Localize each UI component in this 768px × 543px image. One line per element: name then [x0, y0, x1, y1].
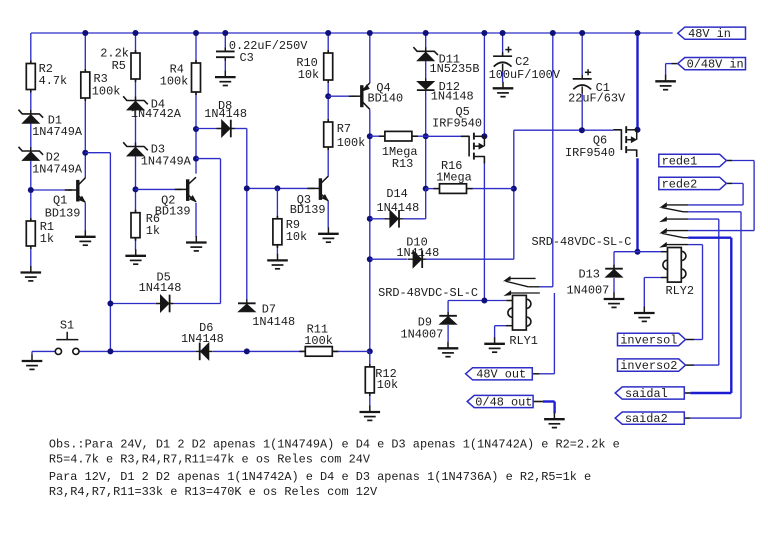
resistor R12: [365, 364, 374, 396]
wire Q2 emitter to ground: [195, 203, 197, 237]
zener diode D3: [123, 142, 148, 156]
wire R10 branch: [327, 33, 329, 177]
label D3: [141, 143, 192, 169]
diode D8: [217, 120, 235, 138]
svg-text:100uF/100V: 100uF/100V: [489, 68, 561, 82]
wire 0/48V in link: [666, 64, 678, 76]
svg-text:inverso2: inverso2: [620, 359, 677, 373]
ground RLY2 coil: [634, 307, 655, 322]
svg-text:saidal: saidal: [625, 387, 668, 401]
svg-text:100k: 100k: [92, 84, 121, 98]
wire C3 branch: [224, 33, 226, 71]
contact RLY2 arm3: [660, 229, 688, 238]
wire C1 branch: [581, 33, 583, 130]
label RLY2: [666, 284, 695, 298]
node R3-bus junction: [82, 30, 88, 36]
relay coil RLY1: [508, 295, 531, 330]
label R1: [40, 220, 54, 246]
resistor R5: [131, 50, 140, 82]
svg-text:BD139: BD139: [290, 203, 326, 217]
label D12: [431, 80, 474, 103]
node R16 right junction: [511, 186, 517, 192]
resistor R9: [273, 216, 282, 248]
net tag rede2: [659, 177, 727, 191]
wire 0/48 out link thick: [533, 402, 555, 414]
label R4: [160, 62, 189, 88]
svg-text:C3: C3: [240, 51, 254, 65]
resistor R1: [26, 218, 35, 249]
mosfet Q6: [613, 126, 637, 157]
label D6: [181, 321, 224, 346]
label D1: [32, 114, 83, 140]
resistor R2: [26, 61, 35, 93]
svg-text:1N4749A: 1N4749A: [32, 125, 83, 139]
wire C2 branch: [502, 33, 504, 82]
label D4: [131, 97, 182, 121]
node Q5-bus junction: [481, 30, 487, 36]
svg-text:RLY1: RLY1: [509, 334, 538, 348]
node Q5 source junction: [481, 133, 487, 139]
mosfet Q5: [461, 133, 485, 164]
wire Q6 source branch thick: [636, 33, 638, 130]
capacitor C1: [573, 69, 592, 94]
label R6: [146, 212, 160, 238]
wire RLY1 row: [448, 300, 512, 302]
transistor Q1: [65, 178, 86, 203]
node Q6 source junction: [635, 127, 641, 133]
label Q3: [290, 193, 326, 217]
wire Q6 drain thick: [636, 158, 638, 251]
wire R3 to S1 column: [85, 153, 110, 352]
label R9: [286, 218, 307, 244]
svg-text:Q1: Q1: [53, 193, 67, 207]
note line 4: [49, 485, 378, 499]
diode D10: [408, 250, 426, 268]
svg-text:rede1: rede1: [662, 154, 698, 168]
wire R16 row: [426, 188, 514, 190]
svg-text:1N4007: 1N4007: [567, 283, 610, 297]
wire R12 branch: [369, 351, 371, 405]
resistor R13: [379, 131, 418, 141]
svg-text:IRF9540: IRF9540: [565, 146, 615, 160]
label D5: [139, 271, 182, 295]
svg-text:10k: 10k: [286, 230, 307, 244]
svg-text:rede2: rede2: [662, 177, 698, 191]
wire arm3 blade to saida1 thick: [684, 238, 731, 393]
diode D6: [196, 343, 213, 361]
node D8 junction: [193, 126, 199, 132]
svg-text:1N4148: 1N4148: [204, 107, 247, 121]
label D9: [401, 316, 444, 342]
label Q4: [368, 81, 404, 105]
node R3 bottom junction: [82, 150, 88, 156]
svg-text:R13: R13: [392, 157, 413, 171]
node R4-bus junction: [193, 30, 199, 36]
wire Q4 branch: [369, 33, 371, 351]
node RLY1 row junction: [481, 298, 487, 304]
ground RLY1 coil: [484, 337, 505, 352]
node D5 junction: [107, 301, 113, 307]
svg-text:R3,R4,R7,R11=33k e R13=470K e: R3,R4,R7,R11=33k e R13=470K e os Reles c…: [49, 485, 378, 499]
ground Q3: [318, 227, 339, 242]
svg-text:22uF/63V: 22uF/63V: [568, 92, 626, 106]
wire RLY2 coil stub: [644, 278, 667, 308]
svg-text:IRF9540: IRF9540: [432, 117, 482, 131]
zener diode D1: [19, 110, 44, 124]
resistor R4: [192, 60, 201, 95]
zener diode D11: [413, 47, 438, 61]
zener diode D2: [19, 147, 44, 161]
svg-text:100k: 100k: [337, 136, 366, 150]
svg-text:100k: 100k: [160, 75, 189, 89]
diode D12: [417, 78, 435, 90]
svg-text:R5: R5: [112, 59, 126, 73]
label D13: [567, 268, 610, 298]
label RLY1: [509, 334, 538, 348]
svg-text:BD139: BD139: [155, 205, 191, 219]
contact RLY1 armB: [505, 291, 540, 296]
ground Q2: [186, 236, 207, 251]
wire top 48V bus: [31, 32, 673, 34]
net tag 0/48V in: [678, 58, 746, 72]
label D7: [252, 303, 295, 330]
net tag 48V out: [466, 368, 533, 382]
ground R1: [21, 266, 42, 281]
node R10-bus junction: [325, 30, 331, 36]
svg-text:0/48 out: 0/48 out: [475, 395, 532, 409]
label D11: [430, 52, 480, 76]
node R7 top junction: [325, 93, 331, 99]
contact RLY2 arm2: [660, 217, 688, 222]
contact RLY2 arm1: [660, 203, 688, 212]
svg-text:1N4742A: 1N4742A: [131, 107, 182, 121]
wire 48V out riser: [532, 293, 554, 374]
node R13 left junction: [367, 133, 373, 139]
svg-text:1N4007: 1N4007: [401, 327, 444, 341]
svg-text:BD139: BD139: [45, 207, 81, 221]
svg-text:1N5235B: 1N5235B: [430, 62, 480, 76]
label R13: [382, 145, 418, 171]
wire Q3 emitter to ground: [327, 201, 329, 228]
wire arm4 to inverso1: [686, 245, 703, 340]
label R12: [375, 367, 398, 392]
svg-text:1N4148: 1N4148: [431, 89, 474, 103]
ground C3: [215, 71, 236, 86]
svg-text:1N4148: 1N4148: [396, 246, 439, 260]
label D8: [204, 99, 247, 121]
ground R6: [125, 249, 146, 264]
contact RLY1 armA: [504, 276, 540, 287]
svg-text:Para 12V, D1 2 D2 apenas 1(1N4: Para 12V, D1 2 D2 apenas 1(1N4742A) e D4…: [49, 470, 591, 484]
zener diode D4: [123, 96, 148, 110]
node Q2 base junction: [133, 186, 139, 192]
svg-text:S1: S1: [60, 319, 74, 333]
svg-text:100k: 100k: [304, 334, 333, 348]
wire R4 branch: [195, 33, 197, 174]
svg-text:1N4749A: 1N4749A: [141, 155, 192, 169]
node D14 junction: [367, 216, 373, 222]
wire D11 branch: [425, 33, 427, 189]
node R12 junction: [367, 348, 373, 354]
ground D13: [604, 293, 625, 308]
net tag saida2: [615, 412, 684, 426]
svg-text:inversol: inversol: [620, 333, 677, 347]
ground 0/48 out: [544, 413, 565, 428]
node R16 left junction: [423, 186, 429, 192]
svg-text:1k: 1k: [40, 232, 54, 246]
diode D13: [605, 265, 623, 278]
node S1 row junction 1: [107, 348, 113, 354]
label Q1: [45, 193, 81, 220]
wire R9 branch: [276, 188, 278, 254]
svg-text:R7: R7: [337, 122, 351, 136]
resistor R10: [324, 50, 333, 83]
svg-text:1N4148: 1N4148: [181, 332, 224, 346]
svg-text:1N4148: 1N4148: [139, 281, 182, 295]
wire Q3 base row: [247, 187, 315, 189]
label C1: [568, 81, 626, 106]
resistor R7: [324, 119, 333, 150]
label S1: [60, 319, 74, 333]
label R11: [304, 323, 333, 349]
label R3: [92, 72, 121, 98]
capacitor C2: [493, 47, 512, 72]
node Q5 gate junction: [423, 133, 429, 139]
svg-text:48V out: 48V out: [476, 368, 526, 382]
resistor R16: [434, 184, 473, 194]
wire D9 corner: [447, 301, 449, 342]
node R5-bus junction: [133, 30, 139, 36]
label SRD-RLY2: [532, 235, 632, 249]
diode D7: [238, 299, 256, 312]
transistor Q2: [175, 177, 196, 202]
wire RLY1 coil stub: [495, 326, 513, 338]
node C2-bus junction: [500, 30, 506, 36]
switch S1: [55, 332, 79, 355]
net tag 48V in: [678, 27, 746, 41]
resistor R3: [81, 69, 90, 101]
wire rede2 link: [688, 183, 743, 205]
wire D14 row: [370, 189, 426, 219]
svg-text:SRD-48VDC-SL-C: SRD-48VDC-SL-C: [378, 286, 478, 300]
wire D5 row: [110, 303, 220, 305]
wire Q1 emitter to ground: [84, 203, 86, 231]
wire RLY2 row: [614, 251, 668, 253]
wire D10 row: [370, 258, 514, 260]
svg-text:saida2: saida2: [625, 412, 668, 426]
label R16: [436, 159, 472, 185]
wire Q1 base: [31, 189, 72, 191]
label R7: [337, 122, 366, 150]
net tag inverso2: [618, 359, 686, 373]
wire 48V riser to RLY1 contact: [540, 33, 553, 287]
svg-text:0/48V in: 0/48V in: [687, 58, 744, 72]
node R9 junction: [274, 185, 280, 191]
svg-text:R5=4.7k e R3,R4,R7,R11=47k e o: R5=4.7k e R3,R4,R7,R11=47k e os Reles co…: [49, 452, 371, 466]
transistor Q3: [307, 176, 328, 201]
net tag inverso1: [618, 333, 686, 347]
svg-text:BD140: BD140: [368, 91, 404, 105]
svg-text:SRD-48VDC-SL-C: SRD-48VDC-SL-C: [532, 235, 632, 249]
note line 1: [49, 438, 620, 452]
wire D1-D2 branch: [30, 90, 32, 267]
wire R5 branch: [135, 33, 137, 250]
capacitor C3: [216, 47, 235, 61]
wire Q4 base: [328, 95, 356, 97]
label D10: [396, 235, 439, 259]
wire rede1 link: [688, 161, 754, 231]
wire S1 row left: [32, 351, 55, 354]
label C3: [229, 39, 308, 65]
wire Q5 drain: [483, 164, 485, 301]
net tag 0/48 out: [467, 395, 533, 409]
wire D8 out riser: [246, 129, 248, 303]
wire S1 row: [79, 350, 369, 352]
node D7 junction: [244, 348, 250, 354]
node D10 junction: [367, 256, 373, 262]
ground R9: [267, 254, 288, 269]
label Q6: [565, 134, 615, 161]
ground 0/48V in: [655, 75, 676, 90]
wire D8 row: [196, 128, 247, 130]
label D2: [32, 151, 83, 177]
node Q1 base junction: [28, 187, 34, 193]
ground Q1: [75, 230, 96, 245]
resistor R11 horizontal: [299, 347, 338, 357]
svg-text:Obs.:Para 24V, D1 2 D2 apenas: Obs.:Para 24V, D1 2 D2 apenas 1(1N4749A)…: [49, 438, 620, 452]
wire D5 riser: [196, 159, 221, 304]
net tag rede1: [659, 154, 727, 168]
node 48V riser bus junction: [550, 30, 556, 36]
label R2: [39, 62, 68, 88]
wire arm1 blade to saida2: [684, 212, 741, 418]
ground S1: [22, 355, 43, 370]
wire R3 branch: [84, 33, 86, 178]
node Q6-bus junction: [635, 30, 641, 36]
label D14: [377, 187, 420, 215]
node C1-bus junction: [579, 30, 585, 36]
ground D9: [438, 342, 459, 357]
svg-text:4.7k: 4.7k: [39, 74, 68, 88]
ground R12: [360, 406, 381, 421]
label C2: [489, 55, 561, 82]
node C1 bottom junction: [579, 127, 585, 133]
label SRD-RLY1: [378, 286, 478, 300]
note line 2: [49, 452, 371, 466]
diode D14: [385, 210, 403, 228]
svg-text:10k: 10k: [298, 68, 319, 82]
node RLY2 row junction: [635, 249, 641, 255]
node D5 riser junction: [193, 156, 199, 162]
svg-text:10k: 10k: [377, 378, 398, 392]
node Q3 base junction 1: [244, 185, 250, 191]
net tag saida1: [615, 387, 684, 401]
node D11-bus junction: [423, 30, 429, 36]
diode D5: [155, 295, 173, 313]
svg-text:RLY2: RLY2: [666, 284, 695, 298]
wire Q2 base: [136, 188, 182, 190]
resistor R6: [131, 210, 140, 241]
wire D10 riser to Q6 gate: [514, 130, 613, 259]
svg-text:D14: D14: [386, 187, 407, 201]
svg-text:1N4148: 1N4148: [377, 201, 420, 215]
svg-text:C2: C2: [515, 55, 529, 69]
svg-text:1Mega: 1Mega: [436, 171, 472, 185]
relay coil RLY2: [663, 248, 686, 283]
transistor Q4 PNP: [349, 83, 370, 109]
note line 3: [49, 470, 591, 484]
svg-text:1N4749A: 1N4749A: [32, 162, 83, 176]
svg-text:1N4148: 1N4148: [252, 315, 295, 329]
node Q4-bus junction: [367, 30, 373, 36]
svg-text:1k: 1k: [146, 224, 160, 238]
wire D13 branch: [613, 252, 615, 293]
node C3-bus junction: [222, 30, 228, 36]
contact RLY2 arm4: [660, 243, 688, 248]
diode D9: [439, 312, 457, 325]
label Q2: [155, 194, 191, 219]
svg-text:D13: D13: [579, 268, 600, 282]
ground C2: [493, 82, 514, 97]
label R5: [100, 47, 129, 73]
wire Q5 source branch: [483, 33, 485, 136]
wire arm2 to inverso2: [686, 219, 719, 365]
wire Q5 gate row: [370, 135, 461, 137]
wire R2 branch top: [30, 33, 32, 64]
svg-text:48V in: 48V in: [688, 27, 731, 41]
label Q5: [432, 105, 482, 130]
label R10: [296, 56, 319, 82]
